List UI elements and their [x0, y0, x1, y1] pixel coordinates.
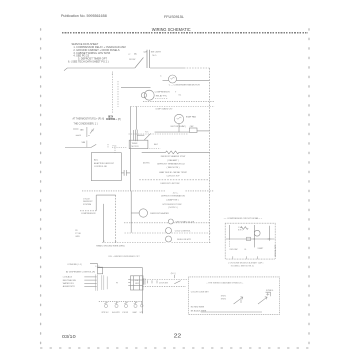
label door switch [159, 273, 176, 285]
svg-text:(NOTE): (NOTE) [143, 162, 150, 164]
label left of switch [112, 50, 148, 75]
svg-text:N.O.: N.O. [153, 55, 158, 57]
label compressor rotated [274, 245, 276, 258]
wire harness rows [84, 277, 96, 287]
label defrost heater [150, 212, 169, 215]
label dispenser parts [102, 311, 144, 314]
wire vertical x103 [103, 204, 105, 242]
svg-text:DEFROST HEATER: DEFROST HEATER [150, 212, 169, 215]
label control board [94, 159, 115, 168]
svg-text:COMPRESSOR: COMPRESSOR [81, 213, 96, 215]
svg-text:22: 22 [174, 333, 182, 339]
connector J1 box [98, 267, 103, 274]
wire vertical x118 [117, 81, 119, 107]
svg-text:CONN BD | L1 |: CONN BD | L1 | [67, 264, 82, 266]
heater HTR small [141, 301, 144, 307]
defrost thermostat RT2 [168, 219, 173, 224]
svg-text:B: B [80, 135, 82, 137]
svg-text:WATER VLV: WATER VLV [63, 282, 75, 285]
legend plus marks [266, 293, 269, 296]
svg-text:THE CONDENSER [ 1 ]: THE CONDENSER [ 1 ] [74, 123, 98, 125]
wire vertical x130 long [129, 107, 131, 191]
wire dashed above board [108, 144, 126, 153]
svg-text:+ + COMPRESSOR CIRCUIT DET: + + COMPRESSOR CIRCUIT DETAIL + + [224, 217, 264, 220]
svg-text:DEFROST LIMIT SW: DEFROST LIMIT SW [161, 183, 180, 185]
svg-text:EVAP FAN: EVAP FAN [186, 116, 196, 119]
svg-text:(N.C.): (N.C.) [171, 273, 176, 275]
label timer box [113, 143, 159, 148]
svg-text:HTR DEFROST 20W: HTR DEFROST 20W [163, 204, 182, 206]
diode symbol D1 [234, 297, 243, 304]
auger motor M5 [115, 301, 119, 307]
label tab plug [80, 129, 94, 145]
label under bus [155, 108, 173, 111]
label compressor circuit parts [230, 227, 265, 251]
label compressor circuit title [224, 217, 264, 220]
wire dispenser top [90, 264, 142, 314]
wire dashed vertical x112 [112, 72, 114, 114]
svg-text:HTR: HTR [140, 312, 144, 314]
svg-text:ICE + WATER DISPENSER CKT: ICE + WATER DISPENSER CKT [108, 255, 140, 258]
svg-text:( ADAPTIVE ): ( ADAPTIVE ) [166, 198, 179, 201]
header publication number [61, 14, 107, 18]
ice switch S2 [124, 301, 128, 307]
wire dashed bus y106 [130, 106, 214, 108]
svg-text:DEFROST TERMINATION: DEFROST TERMINATION [161, 195, 185, 198]
svg-text:DEFROST TERMINATOR L62: DEFROST TERMINATOR L62 [157, 163, 185, 166]
svg-text:SYM 2: SYM 2 [221, 299, 226, 301]
label L1 feed [66, 264, 100, 274]
svg-text:6. ( SEE TECH DATA SHEET PG 2: 6. ( SEE TECH DATA SHEET PG 2 ) [68, 61, 109, 64]
svg-text:COMP GUARD CKT: COMP GUARD CKT [155, 108, 173, 111]
label ground wires [96, 244, 125, 247]
svg-text:S R C: S R C [238, 230, 243, 232]
defrost heater line [142, 151, 210, 154]
legend sym labels [221, 296, 226, 301]
wire L1 supply top [64, 68, 135, 71]
svg-text:TIMER: TIMER [132, 143, 139, 145]
svg-text:T: T [175, 92, 177, 94]
frame bottom dotted border [41, 347, 309, 349]
wire top right run [150, 67, 210, 69]
switch SW1 blade [135, 58, 144, 69]
defrost heater H1 [131, 209, 147, 217]
legend title [206, 282, 244, 285]
svg-text:C: C [160, 75, 162, 77]
label mullion heater [177, 239, 191, 241]
caption dispenser circuit [108, 255, 140, 258]
legend color code [191, 291, 210, 293]
wire dashed section divider y191 [82, 190, 214, 192]
svg-text:CUTOUT 70 F: CUTOUT 70 F [166, 175, 180, 177]
svg-text:BETA: BETA [108, 115, 113, 118]
legend right text [266, 290, 274, 292]
legend underline [201, 311, 262, 313]
label defrost limit [161, 183, 180, 185]
svg-text:RELAY PTC: RELAY PTC [156, 95, 168, 98]
svg-text:WIRING SCHEMATIC: WIRING SCHEMATIC [152, 27, 191, 32]
svg-text:P6: P6 [75, 230, 77, 232]
wire evap row [155, 124, 210, 132]
svg-text:1 2 3: 1 2 3 [238, 227, 242, 229]
thermistor symbol RT1 [258, 292, 271, 304]
defrost thermostat row [124, 222, 211, 224]
footer date [62, 334, 76, 340]
wire dashed compressor row [155, 98, 168, 100]
label defrost thermostat [176, 220, 195, 223]
svg-text:ADC: ADC [154, 143, 159, 146]
svg-text:DOOR SW: DOOR SW [159, 282, 168, 284]
svg-text:DEF TSTAT L60-10F: DEF TSTAT L60-10F [176, 220, 195, 223]
svg-text:CYCLE: CYCLE [83, 198, 90, 200]
svg-text:TAB: TAB [80, 129, 84, 132]
svg-text:ADC: ADC [94, 159, 99, 162]
svg-text:4A: 4A [134, 52, 137, 55]
svg-text:AT THERMOSTAT [P2] + [P1-6]: AT THERMOSTAT [P2] + [P1-6] [73, 117, 105, 120]
svg-text:AT DISPENSER CONTROL [P]: AT DISPENSER CONTROL [P] [66, 270, 95, 273]
svg-text:(1): (1) [91, 130, 94, 132]
svg-text:RD RED WIRE: RD RED WIRE [191, 307, 205, 309]
svg-text:COLOR CODE KEY: COLOR CODE KEY [191, 291, 210, 293]
frame right dotted border [308, 29, 310, 348]
svg-text:COLD CONTROL: COLD CONTROL [175, 231, 192, 233]
svg-text:IS USED ( SEE NOTE 4 ): IS USED ( SEE NOTE 4 ) [231, 265, 255, 267]
svg-text:SYSTEM: SYSTEM [83, 204, 92, 206]
compressor circuit box [225, 223, 275, 259]
svg-text:C — CONDENSER FAN MOTOR: C — CONDENSER FAN MOTOR [169, 83, 200, 86]
svg-text:L1 BLACK: L1 BLACK [63, 276, 73, 279]
mullion heater M6 [166, 236, 172, 242]
transformer timer box T1 [129, 140, 148, 149]
label defrost rows [157, 155, 187, 177]
wire vertical x115 [115, 195, 117, 243]
label evaporator fan [171, 116, 197, 129]
compressor motor M2 [141, 90, 154, 100]
resistor R1 zigzag [241, 227, 249, 230]
tab plug cluster [65, 127, 96, 147]
svg-text:CONTROL BD: CONTROL BD [94, 166, 108, 168]
label note 5 left of evap row [145, 132, 148, 134]
wire fan to vertical [163, 79, 210, 81]
svg-text:AUGER MTR: AUGER MTR [63, 285, 76, 288]
svg-text:P1-3: P1-3 [113, 145, 117, 147]
frame left dotted border [40, 29, 42, 348]
svg-text:START: START [258, 247, 265, 250]
mullion heater row [102, 242, 211, 244]
svg-text:ICE: ICE [135, 280, 138, 282]
header model number [164, 14, 185, 19]
svg-text:DR SW: DR SW [129, 59, 136, 61]
plug connector P1 [133, 130, 150, 142]
wire dashed bus y104 [143, 101, 215, 103]
svg-text:P9: P9 [116, 283, 118, 285]
svg-text:OL: OL [178, 94, 182, 96]
compressor circuit main line [226, 225, 275, 259]
svg-text:P7 GD: P7 GD [75, 233, 81, 235]
svg-text:TAB: TAB [81, 141, 85, 144]
label thermostat row [73, 117, 122, 125]
svg-text:+ THE WIRING DIAGRAM SYMBO: + THE WIRING DIAGRAM SYMBOLS + [206, 282, 244, 285]
label run capacitor [190, 125, 194, 128]
main control board U1 [91, 153, 121, 181]
svg-text:LAMP: LAMP [133, 311, 137, 314]
svg-text:MOTOR (EVAP): MOTOR (EVAP) [171, 125, 186, 128]
wire dispenser right band [142, 275, 188, 287]
evaporator fan motor M3 [174, 114, 183, 123]
svg-text:DEFROST HEATER 575W: DEFROST HEATER 575W [161, 155, 185, 158]
wire dashed dispenser bottom [99, 300, 143, 302]
label condenser fan motor [160, 75, 200, 86]
dark label BETA CONTROL [106, 115, 116, 121]
svg-text:SYM 1: SYM 1 [221, 296, 226, 298]
junction node A [254, 238, 255, 239]
condenser fan motor M1 [169, 75, 177, 83]
svg-text:WTR VLV: WTR VLV [102, 312, 110, 314]
legend dashed box [188, 277, 279, 315]
wire vertical x136 [136, 106, 138, 129]
label wire colors [63, 276, 77, 289]
label freezer tstat [175, 231, 192, 233]
title WIRING SCHEMATIC [152, 27, 191, 32]
svg-text:COMPRESSOR: COMPRESSOR [274, 245, 276, 258]
svg-text:( RADIANT ): ( RADIANT ) [167, 159, 179, 162]
svg-text:ADAPTIVE DEFROST: ADAPTIVE DEFROST [94, 162, 115, 165]
lamp DS1 [134, 301, 138, 307]
notes block [68, 43, 126, 64]
svg-text:CONTROL: CONTROL [106, 119, 116, 121]
legend bottom wires text [191, 307, 207, 313]
svg-text:Publication No. 5995561658: Publication No. 5995561658 [61, 14, 107, 18]
ice maker module box [131, 276, 144, 290]
label light switch [134, 52, 162, 58]
junction node B [269, 238, 270, 239]
wire stub y88 [121, 86, 151, 88]
start relay K1 [254, 230, 260, 236]
svg-text:SW LIGHT: SW LIGHT [151, 52, 162, 54]
wire dashed from timer [149, 148, 160, 150]
label cycle defrost [81, 198, 96, 215]
overload plus mark [267, 237, 271, 241]
title underline dashed rule [62, 32, 308, 34]
label defrost termination rows [161, 192, 185, 208]
svg-text:GRN: GRN [75, 236, 80, 238]
svg-text:HEAT DEF BI - METAL TSTAT: HEAT DEF BI - METAL TSTAT [159, 171, 187, 174]
svg-text:ICE SW: ICE SW [122, 312, 128, 314]
svg-text:4 | 5 +: 4 | 5 + [173, 192, 179, 194]
svg-text:+ [P]: + [P] [116, 119, 121, 121]
svg-text:( ON SOME MODELS A START: ( ON SOME MODELS A START CAP ) [228, 261, 263, 264]
svg-text:MOTOR: MOTOR [132, 146, 140, 148]
svg-text:RUN CAP: RUN CAP [230, 248, 239, 251]
caption under compressor box [228, 261, 263, 267]
svg-text:COMPRESSOR: COMPRESSOR [155, 92, 171, 94]
wire vertical x131 [130, 191, 132, 233]
svg-text:NEUTRAL WH: NEUTRAL WH [63, 279, 77, 282]
svg-text:( NOTE 5 ): ( NOTE 5 ) [168, 207, 178, 209]
water valve V1 [104, 301, 108, 307]
wire to ice module [128, 279, 130, 285]
svg-text:( SEE NOTE ): ( SEE NOTE ) [167, 167, 180, 169]
svg-text:MULLION HTR: MULLION HTR [177, 239, 191, 241]
svg-text:MKR: MKR [135, 283, 139, 285]
wire dashed harness y134 [129, 133, 189, 135]
svg-text:OL: OL [244, 249, 246, 251]
svg-text:3: 3 [112, 73, 113, 75]
freezer tstat row [125, 232, 211, 234]
svg-text:SYMBOL: SYMBOL [266, 290, 274, 292]
svg-text:REAR | GROUND WIRE (GRN): REAR | GROUND WIRE (GRN) [96, 244, 125, 247]
svg-text:AUG MTR: AUG MTR [112, 311, 120, 314]
capacitor C2 at board [121, 170, 130, 176]
wire main right vertical [209, 68, 211, 243]
footer page number [174, 333, 182, 339]
freezer tstat M4 [166, 228, 172, 234]
defrost limit dashed row [139, 179, 210, 181]
label left connector pins [75, 230, 81, 238]
label ice module [116, 280, 140, 285]
cycle defrost wires [80, 195, 116, 211]
svg-text:LT: LT [129, 54, 132, 56]
label left of defrost [143, 162, 150, 164]
run capacitor box [189, 128, 197, 132]
svg-text:N 5: N 5 [145, 132, 148, 134]
svg-text:FFUS0915L: FFUS0915L [164, 14, 185, 19]
capacitor gap terminals [147, 50, 149, 68]
svg-text:DEFROST: DEFROST [83, 201, 93, 203]
label compressor relay [155, 92, 182, 98]
connector bars P2 [96, 274, 107, 290]
svg-text:03/10: 03/10 [62, 334, 76, 340]
